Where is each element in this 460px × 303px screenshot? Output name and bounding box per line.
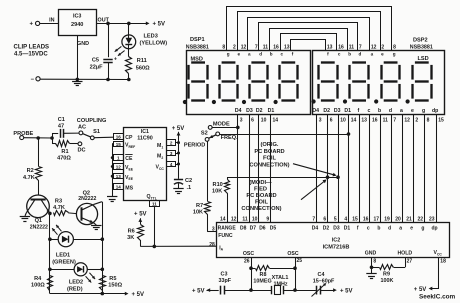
label R7 10K — [193, 203, 203, 216]
svg-text:4.7K: 4.7K — [53, 205, 65, 211]
IC2 pin label d — [388, 225, 391, 231]
svg-text:CP: CP — [125, 135, 133, 141]
DSP1 decimal point 2 — [212, 100, 216, 104]
IC2 pin label RANGE — [218, 225, 237, 231]
resistor R8 — [251, 266, 295, 271]
svg-text:7: 7 — [359, 45, 362, 51]
DSP1 decimal point 1 — [183, 100, 187, 104]
IC2 pin label D2 — [323, 225, 330, 231]
svg-text:R2: R2 — [27, 168, 34, 174]
prescaler IC1 11C90 box — [124, 128, 167, 201]
node R11 bottom — [127, 78, 131, 82]
svg-text:b: b — [377, 225, 380, 231]
wire QTTL pin 11 down — [154, 206, 156, 246]
svg-text:10K: 10K — [193, 210, 203, 216]
IC2 top pin 14 — [220, 216, 226, 222]
svg-text:MODE: MODE — [213, 121, 230, 127]
DSP2 7-segment digit 4 — [413, 63, 432, 101]
svg-text:b: b — [348, 52, 351, 57]
IC2 top pin 10 — [252, 216, 258, 222]
DSP2 bottom pin label d / 7 — [389, 108, 397, 123]
svg-text:LSD: LSD — [418, 56, 429, 62]
label LED3 (YELLOW) — [140, 33, 168, 46]
label R4 100ohm — [31, 276, 45, 289]
svg-text:R7: R7 — [196, 203, 203, 209]
DSP1 top pin 2 (e) — [233, 45, 241, 57]
DSP2 top pin 11 (b) — [348, 45, 354, 57]
svg-text:+ 5V: + 5V — [172, 126, 185, 132]
svg-text:4: 4 — [344, 216, 347, 222]
IC2 pin label GND (8) — [365, 251, 377, 265]
DSP2 bottom pin label g / 8 — [422, 108, 430, 123]
svg-text:e: e — [238, 52, 241, 57]
IC1 pin 2 (M1) tab — [167, 140, 176, 146]
IC2 pin 28 IA — [209, 242, 223, 252]
label COUPLING — [77, 118, 107, 124]
svg-text:23: 23 — [429, 216, 435, 222]
svg-text:R11: R11 — [137, 58, 147, 64]
wire S2 common down — [207, 141, 209, 201]
svg-text:+: + — [30, 22, 34, 28]
node M1/+5V — [177, 141, 180, 144]
resistor R5 — [100, 276, 106, 291]
wire DSP2 D4 (pin 3) to IC2 pin 7 — [316, 115, 318, 222]
svg-text:FIED: FIED — [254, 186, 267, 192]
IC2 top pin 12 — [231, 216, 237, 222]
capacitor C1 47 — [61, 129, 79, 138]
display DSP2 NSB3881 box — [313, 51, 445, 115]
IC2 top pin 23 — [429, 216, 435, 222]
svg-text:IC2: IC2 — [332, 238, 340, 244]
svg-text:COUPLING: COUPLING — [77, 118, 107, 124]
DSP2 top pin 16 (c) — [338, 45, 344, 57]
label R1 470ohm — [57, 149, 71, 162]
wire DSP2 f (pin 13) to IC2 pin 15 — [359, 115, 361, 222]
node C5 bottom — [106, 78, 110, 82]
svg-text:16: 16 — [338, 45, 344, 51]
DSP2 top pin 12 (a) — [371, 45, 377, 57]
DSP2 bottom pin label a / 12 — [400, 108, 410, 123]
svg-text:R10: R10 — [213, 182, 223, 188]
svg-text:−: − — [31, 77, 35, 83]
+5V arrow (IC1) — [172, 126, 185, 136]
wire DSP2 d (pin 7) to IC2 pin 19 — [391, 115, 393, 222]
+5V arrow (osc right) — [333, 288, 352, 294]
DSP2 7-segment digit 1 — [319, 63, 338, 101]
wire DSP2 a (pin 12) to IC2 pin 20 — [402, 115, 404, 222]
resistor R7 — [205, 202, 211, 232]
wire GND pin 8 — [371, 257, 373, 274]
svg-text:8: 8 — [222, 45, 225, 51]
ground (IC2 pin 8) — [366, 274, 376, 279]
svg-text:D4: D4 — [312, 108, 319, 114]
svg-text:+ 5V: + 5V — [192, 288, 205, 294]
svg-text:4.5—15VDC: 4.5—15VDC — [14, 52, 48, 58]
DSP2 decimal point 1 — [312, 99, 316, 103]
svg-text:R1: R1 — [61, 149, 68, 155]
DSP2 bottom pin label f / 13 — [358, 108, 368, 123]
label XTAL1 1MHz — [272, 275, 289, 288]
svg-text:d: d — [388, 225, 391, 231]
wire QTTL to IC2 IA pin 28 — [140, 245, 216, 247]
svg-text:560Ω: 560Ω — [136, 65, 150, 71]
LED2 (RED) — [50, 263, 102, 283]
label LSD — [418, 56, 429, 62]
switch S2 common (PERIOD) — [205, 135, 216, 141]
DSP2 bottom pin label D1 / 14 — [344, 108, 356, 123]
switch S2 FREQ contact — [216, 132, 238, 141]
IC1 pin label VREF — [125, 143, 135, 149]
svg-text:d: d — [358, 52, 361, 57]
svg-text:1: 1 — [117, 156, 120, 161]
ground (C2) — [173, 189, 183, 194]
IC1 pin 15 (VREF) tab — [114, 142, 124, 147]
wire bottom LED rail — [50, 293, 126, 295]
IC2 top pin 22 — [417, 216, 423, 222]
wire S1 to IC1 CP — [94, 136, 114, 139]
+5V arrow (osc left) — [192, 288, 210, 294]
wire segment-bus loop 2 (DSP1 pin 2 to DSP2 pin 2) — [238, 12, 381, 51]
transistor Q1 2N2222 — [25, 195, 50, 218]
svg-text:22: 22 — [417, 216, 423, 222]
svg-text:8: 8 — [393, 45, 396, 51]
svg-text:6: 6 — [251, 117, 254, 123]
svg-text:f: f — [358, 108, 360, 114]
IC2 pin label D4 — [312, 225, 319, 231]
IC2 pin 3 FUNC — [212, 227, 233, 240]
PROBE terminal — [13, 131, 33, 139]
svg-text:4: 4 — [170, 162, 173, 167]
label S2 — [201, 131, 208, 137]
svg-text:OSC: OSC — [287, 251, 298, 257]
svg-text:e: e — [381, 52, 384, 57]
svg-text:OSC: OSC — [243, 251, 254, 257]
svg-text:Q1: Q1 — [35, 218, 42, 224]
wire IC3 GND down — [77, 36, 79, 80]
IC2 pin label e — [410, 225, 413, 231]
DSP1 top pin 7 (d) — [255, 45, 262, 57]
display DSP1 NSB3881 box — [187, 51, 311, 115]
node LED1 right — [101, 237, 105, 241]
capacitor C4 15-60pF (variable) — [295, 283, 334, 297]
DSP2 top pin 13 (f) — [327, 45, 333, 57]
svg-text:PERIOD: PERIOD — [184, 142, 205, 148]
svg-text:13: 13 — [327, 45, 333, 51]
IC2 pin label D1 — [344, 225, 351, 231]
svg-text:R6: R6 — [128, 229, 135, 235]
pin label GND — [77, 41, 89, 47]
DSP1 7-segment digit 1 — [189, 63, 208, 101]
svg-text:C1: C1 — [58, 117, 65, 123]
svg-text:7: 7 — [393, 117, 396, 123]
svg-text:CE: CE — [125, 156, 133, 162]
wire DSP1 D3 (pin 6) to IC2 pin 11 — [249, 115, 251, 222]
svg-text:MS: MS — [125, 185, 133, 191]
svg-text:XTAL1: XTAL1 — [272, 275, 289, 281]
wire Q2 collector rail — [102, 202, 104, 294]
IC2 top pin 21 — [406, 216, 412, 222]
svg-text:D2: D2 — [323, 225, 330, 231]
wire negative rail — [40, 78, 129, 80]
IC1 pin label VEE — [125, 165, 134, 171]
svg-text:NSB3881: NSB3881 — [410, 44, 433, 50]
label LED2 (RED) — [67, 280, 83, 293]
wire segment-bus loop 8 (DSP1 pin 8 to DSP2 pin 8) — [227, 7, 392, 51]
IC2 pin label D5 — [270, 225, 277, 231]
IC2 pin label D3 — [333, 225, 340, 231]
IC1 pin label CE (active low) — [125, 155, 133, 163]
node M2/+5V — [177, 152, 180, 155]
resistor R6 — [138, 225, 144, 247]
node RANGE/D3 (original) — [336, 175, 340, 179]
wire MODE to D4 line — [212, 127, 238, 129]
svg-text:12: 12 — [231, 216, 237, 222]
node probe / C1-R1 — [50, 136, 54, 140]
svg-text:3: 3 — [170, 151, 173, 156]
svg-text:10: 10 — [261, 117, 267, 123]
node R5 bottom — [101, 292, 105, 296]
IC1 pin 13 (VEE2) tab — [114, 174, 124, 180]
svg-text:20: 20 — [395, 216, 401, 222]
label R10 10K — [212, 182, 223, 195]
svg-text:DSP1: DSP1 — [190, 37, 205, 43]
svg-text:11: 11 — [349, 45, 355, 51]
svg-text:150Ω: 150Ω — [108, 282, 122, 288]
svg-text:PC BOARD: PC BOARD — [254, 149, 284, 155]
svg-text:8: 8 — [427, 117, 430, 123]
wire RANGE line — [227, 177, 338, 179]
svg-text:D2: D2 — [323, 108, 330, 114]
svg-text:21: 21 — [406, 216, 412, 222]
DSP1 top pin 8 (g) — [222, 45, 229, 57]
pin label IN — [49, 17, 54, 23]
IC2 top pin 17 — [373, 216, 379, 222]
svg-text:15: 15 — [438, 117, 444, 123]
capacitor C3 33pF — [221, 286, 252, 295]
svg-text:R5: R5 — [109, 276, 116, 282]
watermark SeekIC.com — [419, 293, 456, 300]
IC2 pin label D6 — [259, 225, 266, 231]
svg-text:6: 6 — [330, 117, 333, 123]
wire DSP2 c (pin 16) to IC2 pin 16 — [369, 115, 371, 222]
IC2 pin label c — [367, 225, 370, 231]
DSP2 bottom pin label b / 11 — [378, 108, 388, 123]
svg-text:+ 5V: + 5V — [132, 292, 145, 298]
node GND/R9 — [370, 266, 374, 270]
svg-text:10: 10 — [252, 216, 258, 222]
label DSP1 NSB3881 — [186, 37, 209, 50]
DSP1 7-segment digit 4 — [280, 63, 298, 101]
IC2 pin label OSC (26) — [243, 251, 254, 265]
IC2 pin label HOLD (27) — [397, 251, 412, 265]
DSP2 bottom pin label D2 / 6 — [323, 108, 332, 123]
node XTAL left — [249, 288, 253, 292]
wire probe input — [24, 137, 52, 139]
resistor R1 — [56, 141, 78, 147]
+5V arrow (R6) — [134, 211, 147, 224]
svg-text:GND: GND — [365, 251, 377, 257]
svg-text:14: 14 — [273, 117, 279, 123]
DSP2 7-segment digit 3 — [382, 63, 400, 101]
svg-text:2: 2 — [170, 141, 173, 146]
svg-text:3: 3 — [212, 227, 215, 233]
svg-text:dp: dp — [432, 108, 438, 114]
wire DSP2 e (pin 2) to IC2 pin 21 — [413, 115, 415, 222]
svg-text:D1: D1 — [344, 108, 351, 114]
switch S1 DC contact — [77, 142, 85, 154]
wire + terminal to IC3 IN — [40, 23, 59, 25]
svg-text:11: 11 — [263, 45, 269, 51]
svg-text:LED2: LED2 — [69, 280, 83, 286]
svg-text:11: 11 — [242, 216, 248, 222]
svg-text:3: 3 — [319, 117, 322, 123]
svg-text:e: e — [411, 108, 414, 114]
svg-text:D1: D1 — [268, 108, 275, 114]
svg-text:5: 5 — [334, 216, 337, 222]
wire segment-bus loop 7 (DSP1 pin 7 to DSP2 pin 7) — [259, 23, 358, 51]
LED1 (GREEN) — [50, 225, 102, 247]
svg-text:11: 11 — [152, 201, 157, 206]
svg-text:2: 2 — [381, 45, 384, 51]
label C2 .1 — [185, 178, 192, 191]
wire R7 to IC2 FUNC — [207, 231, 216, 233]
svg-text:SeekIC.com: SeekIC.com — [419, 293, 456, 300]
svg-text:AC: AC — [78, 125, 86, 131]
svg-text:FUNC: FUNC — [218, 233, 233, 239]
svg-text:D2: D2 — [256, 108, 263, 114]
svg-text:R4: R4 — [34, 276, 42, 282]
svg-text:D8: D8 — [240, 225, 247, 231]
wire DSP2 D3 (pin 10) to IC2 pin 5 — [338, 115, 340, 222]
IC2 top pin 15 — [352, 216, 358, 222]
svg-text:PROBE: PROBE — [13, 131, 33, 137]
svg-text:2940: 2940 — [71, 22, 83, 28]
label R3 4.7K — [53, 198, 65, 211]
svg-text:c: c — [367, 225, 370, 231]
svg-text:18: 18 — [440, 259, 446, 265]
svg-text:3K: 3K — [127, 235, 134, 241]
IC2 pin label f — [357, 225, 359, 231]
svg-text:15–60pF: 15–60pF — [313, 278, 335, 284]
wire osc rail left — [207, 290, 219, 292]
svg-text:19: 19 — [384, 216, 390, 222]
svg-text:+ 5V: + 5V — [414, 287, 427, 293]
switch S2 MODE contact — [208, 121, 230, 129]
wire segment-bus loop 12 (DSP1 pin 12 to DSP2 pin 12) — [248, 18, 370, 51]
svg-text:C4: C4 — [318, 272, 325, 278]
svg-text:3: 3 — [240, 117, 243, 123]
node R8 left — [249, 266, 253, 270]
node MODE/D4 — [236, 126, 240, 130]
svg-text:11: 11 — [383, 117, 389, 123]
svg-text:10MEG: 10MEG — [253, 278, 271, 284]
node XTAL right — [293, 288, 297, 292]
label C4 15-60pF — [313, 272, 335, 284]
IC1 pin 1 (CE) tab — [114, 155, 124, 161]
svg-text:CONNECTION): CONNECTION) — [241, 206, 281, 212]
svg-text:33pF: 33pF — [219, 278, 232, 284]
wire DSP2 g (pin 8) to IC2 pin 22 — [424, 115, 426, 222]
svg-text:(MODI—: (MODI— — [249, 180, 272, 186]
+5V supply arrow (top) — [146, 22, 165, 28]
svg-text:47: 47 — [58, 123, 64, 129]
label R11 560ohm — [136, 58, 150, 71]
IC1 pin label CP — [125, 135, 133, 141]
IC2 top pin 6 — [323, 216, 326, 222]
svg-text:10: 10 — [340, 117, 346, 123]
node C5 top — [106, 22, 110, 26]
DSP2 decimal point 2 — [343, 99, 347, 103]
DSP2 top pin 2 (e) — [381, 45, 384, 57]
IC1 pin label MS — [125, 185, 133, 191]
switch S1 arm — [83, 129, 100, 140]
wire DSP2 dp (pin 15) to IC2 pin 23 — [436, 115, 438, 222]
note ORIG PC BOARD FOIL CONNECTION — [249, 142, 336, 176]
svg-text:22µF: 22µF — [90, 65, 103, 71]
svg-text:13: 13 — [284, 45, 290, 51]
svg-text:ICM7216B: ICM7216B — [323, 245, 350, 251]
wire HOLD pin 27 — [405, 257, 407, 267]
svg-text:D3: D3 — [246, 108, 253, 114]
svg-text:C5: C5 — [92, 58, 99, 64]
svg-text:4.7K: 4.7K — [23, 175, 35, 181]
svg-text:PC BOARD: PC BOARD — [246, 193, 276, 199]
wire OSC pin 25 down — [295, 257, 297, 290]
IC1 pin label M2 — [157, 154, 163, 160]
IC2 pin label g — [421, 225, 424, 231]
svg-text:g: g — [227, 52, 230, 57]
DSP1 top pin 11 (b) — [263, 45, 273, 57]
LED3 (YELLOW) — [115, 35, 136, 56]
svg-text:D5: D5 — [270, 225, 277, 231]
svg-text:6: 6 — [323, 216, 326, 222]
label PERIOD — [184, 142, 205, 148]
capacitor C2 0.1 — [174, 180, 183, 189]
label C3 33pF — [219, 271, 232, 284]
DSP1 decimal point 4 — [274, 100, 278, 104]
IC2 top pin 19 — [384, 216, 390, 222]
IC2 top pin 7 — [312, 216, 315, 222]
svg-text:a: a — [400, 108, 403, 114]
DSP2 bottom pin label dp / 15 — [432, 108, 444, 123]
svg-text:g: g — [421, 225, 424, 231]
svg-text:17: 17 — [373, 216, 379, 222]
node Q1 collector junction — [48, 212, 52, 216]
IC2 top pin 16 — [363, 216, 369, 222]
label QTTL output — [147, 194, 157, 200]
node probe / R2 — [36, 136, 40, 140]
svg-text:+ 5V: + 5V — [153, 22, 166, 28]
label LED1 (GREEN) — [52, 253, 76, 266]
DSP2 bottom pin label D3 / 10 — [334, 108, 346, 123]
svg-text:27: 27 — [407, 259, 413, 265]
node QTTL/IA — [153, 245, 157, 249]
DSP2 decimal point 4 — [406, 99, 410, 103]
DSP2 decimal point 3 — [374, 99, 378, 103]
wire C1/R1 split — [52, 133, 58, 144]
DSP2 bottom pin label e / 2 — [411, 108, 418, 123]
resistor R3 — [54, 211, 77, 216]
wire LED3 branch — [128, 23, 130, 35]
svg-text:DC: DC — [77, 148, 85, 154]
IC2 top pin 20 — [395, 216, 401, 222]
resistor R11 — [126, 49, 132, 80]
DSP1 bottom pin label D1 / 14 — [268, 108, 279, 123]
node VCC/+5V — [177, 163, 180, 166]
IC1 pin 14 (MS) tab — [114, 184, 124, 190]
svg-text:DSP2: DSP2 — [413, 38, 428, 44]
svg-text:IC3: IC3 — [73, 14, 81, 20]
